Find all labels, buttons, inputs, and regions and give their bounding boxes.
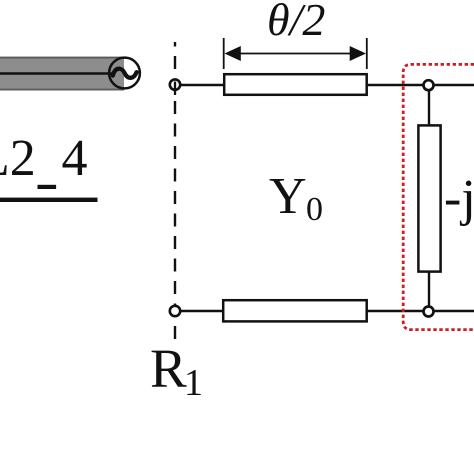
svg-text:θ/2: θ/2	[267, 0, 325, 45]
svg-text:L2: L2	[0, 130, 36, 187]
coax center conductor wire	[0, 72, 112, 75]
dimension arrow line	[238, 53, 353, 55]
coax outer conductor top edge	[0, 57, 124, 59]
open-circuit stub element	[418, 125, 440, 271]
wire: stub bottom	[428, 271, 430, 311]
AC source V1	[109, 58, 140, 89]
underline rule	[0, 198, 98, 202]
transmission line section (bottom)	[223, 300, 367, 321]
svg-text:1: 1	[184, 362, 203, 404]
arrowhead left	[225, 46, 241, 61]
AC source sine symbol	[113, 69, 137, 78]
dashed reference plane line	[174, 42, 176, 345]
svg-text:-j: -j	[444, 170, 474, 227]
node: bottom-left port	[170, 306, 180, 316]
node: stub bottom junction	[424, 307, 434, 317]
wire: top node to top line	[175, 84, 224, 86]
coax feed line (gray bar)	[0, 57, 124, 90]
dash over top node	[174, 82, 176, 96]
dimension tick right	[366, 38, 368, 69]
wire: bottom node to bottom line	[175, 310, 223, 312]
transmission line section (top), theta/2	[224, 74, 367, 95]
node: top-left port	[170, 79, 180, 89]
svg-text:4: 4	[62, 130, 88, 187]
svg-text:Y: Y	[269, 168, 307, 225]
svg-text:R: R	[150, 338, 187, 399]
wire: top line to right edge	[366, 84, 474, 86]
red dotted box around stub	[403, 64, 474, 329]
wire: bottom line to right edge	[366, 310, 474, 312]
arrowhead right	[350, 46, 366, 61]
wire: stub top	[428, 85, 430, 126]
label underscore of L2_4	[38, 185, 57, 189]
node: stub top junction	[424, 80, 434, 90]
dimension tick left	[223, 38, 225, 69]
coax outer conductor bottom edge	[0, 89, 124, 91]
svg-text:0: 0	[306, 191, 323, 228]
